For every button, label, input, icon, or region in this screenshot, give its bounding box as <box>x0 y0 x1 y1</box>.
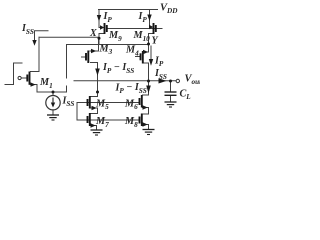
wire M2 source stub from tail <box>66 86 68 92</box>
svg-text:X: X <box>89 28 97 39</box>
ground below M8 <box>143 129 155 131</box>
arrow M10 source (PMOS, right) <box>149 25 153 29</box>
arrow left Ip (down) <box>97 15 101 22</box>
svg-text:M10: M10 <box>133 30 151 43</box>
arrow M9 source (PMOS, right) <box>100 25 104 29</box>
input step waveform icon <box>5 63 22 85</box>
Vout terminal circle <box>176 79 179 82</box>
arrow M4 source (right, at Y corner) <box>143 50 148 54</box>
node dot Y <box>147 43 150 46</box>
svg-text:M4: M4 <box>125 45 139 58</box>
wire M9 drain to node X <box>99 34 105 45</box>
arrow M8 source (right) <box>143 122 148 126</box>
arrow M6 source (right) <box>143 105 148 109</box>
arrow M1 source (right) <box>31 82 36 86</box>
svg-text:M6: M6 <box>124 98 138 111</box>
svg-text:IP: IP <box>154 55 164 68</box>
wire M3 drain riser to mirror input <box>91 63 98 93</box>
node dot mirror input <box>96 91 99 94</box>
wire M3 gate stub <box>82 56 86 58</box>
wire M1 drain riser <box>31 37 40 71</box>
wire tail to Iss current source <box>52 92 54 96</box>
capacitor CL plates <box>165 91 177 93</box>
svg-text:VDD: VDD <box>160 2 178 15</box>
transistor M10 bars <box>153 23 155 34</box>
svg-text:IP: IP <box>138 11 148 24</box>
transistor M7 bars <box>89 113 91 126</box>
svg-text:Y: Y <box>152 36 159 47</box>
Iss current source circle <box>46 96 60 110</box>
transistor M5 bars <box>89 96 91 109</box>
wire X riser to M3 source <box>90 38 99 51</box>
transistor M4 bars <box>142 51 144 64</box>
transistor M1 bars <box>29 72 31 85</box>
svg-text:M3: M3 <box>99 43 113 56</box>
wire tail line <box>37 91 67 93</box>
wire node Y to M2 drain stub (long left wire, down) <box>67 45 149 79</box>
wire M9-M10 gate line with right stub <box>108 28 163 30</box>
transistor M3 bars <box>87 51 89 64</box>
node dot X <box>98 37 101 40</box>
wire output col to M6 drain <box>143 81 149 95</box>
wire left Ip branch (VDD to M9 source) <box>99 10 103 28</box>
wire mirror input to M5 drain <box>91 92 98 97</box>
arrow Ip-Iss annotation 2 (down, on M6 drain riser) <box>146 86 151 94</box>
ground below M7 <box>91 129 103 131</box>
transistor M8 bars <box>141 114 143 127</box>
wire CL bottom to ground <box>170 96 172 102</box>
svg-text:M1: M1 <box>39 77 53 90</box>
node dot output column <box>147 80 150 83</box>
wire output line <box>74 80 176 82</box>
wire M4 gate stub <box>136 56 140 58</box>
arrow Iss annotation head (down, top left) <box>32 40 36 46</box>
wire M4 drain riser to output line <box>144 63 149 81</box>
wire M7 source to ground <box>91 126 97 130</box>
arrow M5 source (right) <box>92 106 97 110</box>
wire Iss source to ground <box>52 110 54 115</box>
wire VDD rail <box>99 9 158 11</box>
wire right Ip branch (VDD to M10 source) <box>150 10 153 28</box>
wire M10 drain to node Y <box>149 34 154 45</box>
svg-text:IP: IP <box>103 11 113 24</box>
node dot CL tap <box>169 80 172 83</box>
Iss current source arrow shaft <box>52 98 54 104</box>
svg-text:IP − ISS: IP − ISS <box>115 82 147 95</box>
svg-text:ISS: ISS <box>21 23 34 36</box>
arrow Iss annotation (right, on output wire) <box>159 78 167 83</box>
arrow Iss current source internal (down) <box>51 103 55 108</box>
arrow M3 source (right, at X corner) <box>91 49 96 53</box>
svg-text:M5: M5 <box>95 98 109 111</box>
svg-text:Vout: Vout <box>185 73 201 86</box>
wire M7-M8 gate rail <box>77 119 140 121</box>
wire CL riser <box>170 81 172 92</box>
Ip annotation shaft (right column, beside Y-M4 wire) <box>150 46 152 59</box>
wire node X to M1 drain (horizontal) <box>39 36 99 38</box>
svg-text:M7: M7 <box>95 116 109 129</box>
wire M8 source to ground <box>143 125 149 130</box>
arrow M7 source (right) <box>91 123 96 127</box>
wire M5 source to M7 drain <box>91 108 98 114</box>
arrow Ip annotation (down, right column) <box>149 59 153 66</box>
svg-text:M9: M9 <box>108 30 122 43</box>
node dot tail <box>52 91 55 94</box>
wire M1 gate lead <box>22 77 27 79</box>
arrow Ip-Iss annotation 1 (down, on M3 drain riser) <box>95 69 100 76</box>
svg-text:IP − ISS: IP − ISS <box>102 62 134 75</box>
ground below Iss source <box>47 114 59 116</box>
svg-text:CL: CL <box>180 88 192 101</box>
svg-text:ISS: ISS <box>154 68 167 81</box>
svg-text:ISS: ISS <box>62 95 75 108</box>
svg-text:M8: M8 <box>124 116 138 129</box>
wire M6 source to M8 drain <box>143 108 149 115</box>
ground below CL <box>165 101 177 103</box>
transistor M9 bars <box>104 23 106 34</box>
wire M1 source bend <box>31 85 38 93</box>
arrow right Ip (down) <box>147 15 151 22</box>
Iss L-shaped annotation arrow (top left) <box>35 31 49 40</box>
wire gate rails left bracket <box>76 103 78 121</box>
M1 gate input terminal circle <box>18 76 21 79</box>
transistor M6 bars <box>141 95 143 108</box>
wire M4 source to Y <box>144 45 149 53</box>
wire M5-M6 gate rail <box>77 102 140 104</box>
